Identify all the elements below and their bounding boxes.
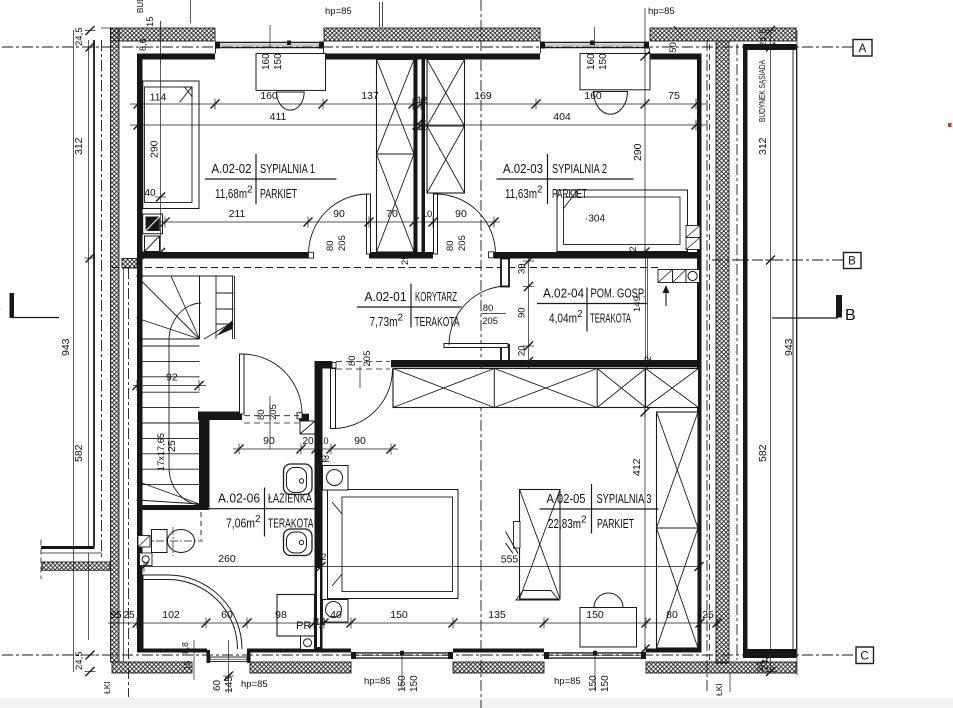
door D3 pom gosp leaf [444,344,508,348]
balcony door jamb stubs [207,650,251,663]
svg-text:hp=85: hp=85 [554,676,581,687]
door D4 size label 80 205 [347,351,373,367]
pom gosp south wall [391,360,702,367]
svg-text:A.02-05: A.02-05 [547,491,586,506]
door D4 sypialnia3 leaf [331,369,336,429]
bottom page edge band [0,698,953,708]
svg-text:TERAKOTA: TERAKOTA [415,314,460,329]
room label lazienka [208,488,316,537]
svg-text:90: 90 [333,208,345,220]
label 25 wardrobe pier [400,254,411,265]
svg-text:150: 150 [586,609,604,621]
svg-text:2: 2 [537,185,543,196]
svg-text:80: 80 [256,409,267,420]
svg-text:90: 90 [354,435,366,447]
svg-text:20: 20 [302,436,314,447]
bottom outer wall hatch segment 4 [646,662,796,673]
svg-text:90: 90 [455,208,467,220]
section B arrow left [0,293,59,318]
svg-text:A.02-01: A.02-01 [365,289,407,304]
desk size labels room1 [261,53,284,70]
svg-text:12: 12 [643,356,654,367]
right wall inner face [697,54,702,650]
bathroom north wall [198,412,242,421]
pom gosp 149 extension lines [646,252,648,368]
svg-text:137: 137 [361,90,379,102]
dimension chain bottom [108,609,722,629]
dashed lintel over bathroom door [244,416,299,423]
svg-text:12: 12 [316,552,327,563]
attic knee-wall dashed line [112,267,658,269]
staircase [137,276,235,505]
svg-text:A.02-06: A.02-06 [218,491,260,506]
door D5 swing arc [242,354,302,414]
svg-text:943: 943 [783,338,795,356]
floor drain square [140,553,153,566]
svg-text:411: 411 [270,111,287,123]
svg-text:PR: PR [296,620,311,632]
lower-left wall axis [124,268,129,697]
svg-text:·304: ·304 [585,213,605,225]
bed sypialnia1 [143,81,199,209]
labels 150 150 below window4 [588,675,611,692]
small square with diagonal near toilet [138,536,150,548]
door D2 size label 80 205 [445,235,468,251]
door D4 swing arc [333,369,393,429]
top outer wall hatch middle segment [324,28,540,41]
svg-text:15: 15 [182,660,192,670]
bottom wall inner face segment 3 [453,649,544,653]
right outer dim 943 [783,30,797,675]
dimension chain bathroom door [233,435,398,455]
svg-text:150: 150 [588,675,599,692]
bottom outer wall hatch segment 1 [112,662,192,673]
extension lines above top wall [380,2,383,27]
svg-text:A.02-04: A.02-04 [543,286,584,301]
right dimension line [757,26,776,676]
tall wardrobe east wall sypialnia3 [657,412,699,648]
wardrobe center side panel [514,522,521,549]
svg-text:24,5: 24,5 [74,28,85,47]
desk sypialnia2 [580,54,650,90]
section marker C [856,647,874,664]
section B arrow right [772,295,856,324]
room label korytarz [357,284,462,330]
bed2 label 304 [585,213,605,225]
wardrobe band top of sypialnia3 [393,369,699,408]
stair south wall [140,505,210,510]
svg-text:114: 114 [150,92,167,104]
wardrobe column between rooms right [427,60,465,194]
PR small square with circle [301,636,315,650]
window centre extension lines bottom [402,650,595,690]
svg-text:150: 150 [600,675,611,692]
svg-text:10: 10 [422,209,433,220]
svg-text:hp=85: hp=85 [364,676,391,687]
dimension line 260 555 [140,553,704,572]
bed sypialnia3 [328,490,459,599]
nightstand lower sypialnia3 [323,600,349,623]
svg-text:24,5: 24,5 [74,652,85,671]
label 24,5 bottom right [755,654,766,673]
balcony door double swing arc [143,575,242,649]
window W3 bottom wall [351,651,453,659]
left dim 943 [60,338,72,356]
svg-text:A.02-03: A.02-03 [503,161,543,176]
top wall inner face middle [324,54,540,60]
stair label 25 [166,440,178,452]
stair label 17x17,65 [156,433,167,471]
label 8,6 top left [138,38,148,51]
svg-text:SYPIALNIA 2: SYPIALNIA 2 [552,161,607,176]
svg-text:260: 260 [218,553,236,565]
room label sypialnia2 [497,154,634,204]
room2 height dim 290 [632,8,650,258]
svg-text:39: 39 [517,263,528,274]
svg-text:90: 90 [517,307,528,318]
svg-text:60: 60 [221,609,233,621]
washbasin lower bathroom [284,529,313,556]
svg-text:75: 75 [668,90,680,102]
svg-text:312: 312 [73,137,85,155]
section line vertical dash-dot [480,0,482,708]
chair sypialnia2 [594,92,628,115]
bed sypialnia2 [557,190,688,252]
svg-text:150: 150 [273,53,284,70]
desk sypialnia1 [256,54,326,91]
door jamb block D5 right [297,413,302,419]
svg-text:12: 12 [628,246,639,257]
svg-text:160: 160 [586,53,597,70]
dimension line 411 404 [130,111,706,133]
arrow up pom gosp [663,285,670,306]
dimension chain pom gosp door [517,256,535,368]
room label sypialnia1 [205,154,337,204]
axis B dash-dot line right [712,259,843,261]
labels 60 145 bottom [212,676,235,693]
svg-text:92: 92 [166,372,178,384]
svg-text:205: 205 [337,235,348,251]
svg-text:2: 2 [581,515,587,526]
svg-text:12: 12 [417,95,428,106]
svg-text:TERAKOTA: TERAKOTA [590,311,631,326]
svg-text:290: 290 [149,140,161,158]
chimney flue black square [143,214,163,234]
window W1 top wall [215,41,324,49]
left wall inner face [137,54,143,650]
labels 15 8,8 bottom left [180,642,192,670]
label 12 at chimney [136,250,146,260]
bottom outer wall hatch segment 2 [250,662,351,673]
hp=85 label top left window [325,6,352,17]
corridor-pomgosp wall lower [501,345,509,362]
svg-text:150: 150 [390,609,408,621]
svg-text:12: 12 [417,122,428,133]
svg-text:11,68m: 11,68m [215,186,247,201]
svg-text:10: 10 [318,436,328,446]
bottom wall inner face segment 1 [137,649,207,653]
svg-text:80: 80 [347,355,358,366]
svg-text:582: 582 [73,444,85,462]
svg-text:SYPIALNIA 1: SYPIALNIA 1 [260,161,315,176]
label LKI bottom left [102,681,112,694]
svg-text:150: 150 [598,53,609,70]
bathroom door centre extension line [269,396,271,449]
pom gosp wall thickness 12 top [628,246,639,257]
left wall vertical axis [101,40,103,560]
window marker 150 top right [595,26,683,58]
svg-text:22,83m: 22,83m [548,516,581,531]
corridor-pomgosp wall upper [501,259,509,287]
svg-text:555: 555 [501,554,519,566]
svg-text:312: 312 [757,137,769,155]
window W4 bottom wall [544,651,646,659]
break mark on side panel [506,532,519,554]
top wall inner face right [650,54,702,60]
svg-text:7,73m: 7,73m [370,314,398,329]
svg-text:150: 150 [397,675,408,692]
chair sypialnia1 [277,92,305,110]
door D3 size label 80 205 [481,303,506,327]
corner block at syp3 door [315,361,333,369]
svg-text:2: 2 [255,514,261,525]
svg-text:2: 2 [247,185,253,196]
right wall insulation dashed line [709,44,711,660]
hp=85 label balcony [241,679,268,690]
label 12 under bathroom dim [319,454,330,465]
corridor north wall segment 1 [137,252,308,259]
right wall vertical axis [706,40,708,694]
left exterior wall stub [41,540,110,580]
red reference dot [948,123,952,127]
stair east wall [199,412,210,505]
svg-text:2: 2 [398,313,404,324]
svg-text:hp=85: hp=85 [325,6,352,17]
top outer wall hatch left segment [111,28,216,41]
svg-text:150: 150 [409,675,420,692]
bottom outer wall hatch segment 3 [453,662,544,673]
neighbour building label [757,60,767,122]
window jamb reveals top [216,25,650,54]
svg-text:404: 404 [553,111,571,123]
toilet [142,527,203,556]
top wall inner face left [137,54,215,60]
pier with diagonal below stub [300,421,315,434]
dashed line below stair wall [200,512,202,540]
svg-text:40: 40 [144,188,156,199]
svg-text:25: 25 [166,440,178,452]
room1 height dim 290 [144,0,190,257]
svg-text:102: 102 [162,609,180,621]
svg-text:ŁKI: ŁKI [102,681,112,694]
svg-text:211: 211 [229,208,246,220]
door D3 swing arc [449,286,508,345]
svg-text:205: 205 [268,404,279,420]
hatched pier at left wall corridor junction [122,259,137,269]
corridor north wall segment 2 [369,252,433,259]
hp=85 label bottom window4 [554,676,581,687]
svg-text:ŁAZIENKA: ŁAZIENKA [268,491,312,506]
partition wall between wardrobes [414,60,425,253]
svg-text:8,8: 8,8 [180,642,190,654]
door jamb block D1 left [309,252,314,258]
svg-text:205: 205 [362,351,373,367]
svg-text:25: 25 [702,609,714,621]
labels 150 150 below window3 [397,675,420,692]
svg-text:25: 25 [400,254,411,265]
chair at bottom window sypialnia3 [580,593,637,647]
svg-text:A.02-02: A.02-02 [212,161,252,176]
svg-text:40: 40 [330,609,342,621]
svg-text:150: 150 [668,42,679,58]
svg-text:BUD: BUD [136,0,145,13]
top band upper edge line [101,27,111,29]
bathroom-syp3 dividing wall [315,361,323,649]
hp=85 label bottom window3 [364,676,391,687]
svg-text:80: 80 [666,609,678,621]
label BUD top left [136,0,145,13]
svg-text:KORYTARZ: KORYTARZ [415,289,457,304]
nightstand squares sypialnia2 [686,226,700,250]
svg-text:4,04m: 4,04m [549,311,577,326]
extension line 15 top left [160,21,162,64]
label PR [296,620,311,632]
svg-text:7,06m: 7,06m [226,516,255,531]
svg-text:B: B [848,256,856,268]
axis A dash-dot line [2,46,853,48]
svg-text:8,6: 8,6 [138,38,148,51]
washbasin upper bathroom [284,464,313,495]
corridor north wall segment 3 pom gosp top [494,252,702,259]
svg-text:160: 160 [260,90,278,102]
svg-text:20: 20 [517,345,528,356]
bottom wall inner face segment 2 [247,649,351,653]
svg-text:25: 25 [123,610,135,621]
svg-text:PARKIET: PARKIET [260,186,297,201]
small box with diagonal below chimney [145,236,160,252]
svg-text:80: 80 [483,303,494,314]
PR shaft rectangle [277,595,315,637]
svg-text:98: 98 [275,609,287,621]
door D1 sypialnia1 leaf [367,194,371,254]
door D1 swing arc [309,194,369,254]
svg-text:hp=85: hp=85 [241,679,268,690]
svg-text:169: 169 [474,90,492,102]
right outer wall hatch band [716,41,729,663]
door D5 size label 80 205 [256,404,279,420]
svg-text:PARKIET: PARKIET [552,186,587,201]
svg-text:24,5: 24,5 [758,29,769,48]
svg-text:TERAKOTA: TERAKOTA [268,516,314,531]
svg-text:15: 15 [145,16,156,27]
pom gosp dim 149 [632,296,643,312]
room3 height dim 412 [631,370,650,655]
svg-text:412: 412 [631,458,643,476]
svg-text:C: C [860,651,868,663]
door jamb block D4 left [332,363,336,369]
svg-text:12: 12 [316,454,327,465]
stair dim 92 [133,372,207,392]
svg-text:PARKIET: PARKIET [597,516,634,531]
axis between buildings right [736,44,738,660]
svg-text:B: B [0,299,1,316]
dashed lintel lines over syp3 doorway [336,362,390,389]
svg-text:160: 160 [584,90,602,102]
neighbour building outline [743,44,797,658]
door D5 bathroom leaf [240,354,245,414]
label LKI bottom right [714,673,730,696]
svg-text:290: 290 [632,143,644,161]
balcony door extension lines [194,640,234,693]
svg-text:hp=85: hp=85 [648,6,675,17]
wardrobe center sypialnia3 [520,490,561,600]
door D1 size label 80 205 [325,235,348,251]
svg-text:24,5: 24,5 [755,654,766,673]
svg-text:80: 80 [445,240,456,251]
dimension chain rooms top [130,90,706,110]
nightstand upper sypialnia3 [323,466,349,491]
wardrobe column between rooms left [377,60,415,253]
section marker A [853,40,872,57]
bottom wall inner face segment 4 [646,649,702,653]
svg-text:B: B [845,307,856,324]
svg-text:80: 80 [325,240,336,251]
axis C dash-dot line [2,654,856,656]
svg-text:A: A [859,43,867,55]
svg-text:60: 60 [212,679,223,691]
svg-text:ŁKI: ŁKI [714,683,724,696]
svg-text:135: 135 [488,609,506,621]
balcony door threshold [210,657,247,662]
svg-text:145: 145 [224,676,235,693]
svg-text:2: 2 [577,309,583,320]
hp=85 label top right window [648,6,675,17]
pom gosp wall thickness 12 bottom [643,356,654,367]
left dimension line [73,26,96,676]
bathroom north wall stub [299,414,309,421]
svg-text:11,63m: 11,63m [505,186,537,201]
svg-text:95: 95 [110,610,122,621]
room label sypialnia3 [540,484,659,534]
door D2 swing arc [436,194,496,254]
svg-text:205: 205 [457,235,468,251]
svg-text:205: 205 [482,316,498,327]
left outer wall hatch band [111,28,120,662]
window W2 top wall [540,41,649,49]
svg-text:582: 582 [757,444,769,462]
svg-text:70: 70 [386,208,398,220]
svg-text:160: 160 [261,53,272,70]
svg-text:BUDYNEK SĄSIADA: BUDYNEK SĄSIADA [757,60,767,122]
syp3 door east jamb [500,344,502,346]
room label pom gosp [537,286,647,332]
desk size labels room2 [586,53,609,70]
door D2 sypialnia2 leaf [434,194,438,254]
door jamb block D2 right [489,252,494,258]
svg-text:SYPIALNIA 3: SYPIALNIA 3 [597,491,652,506]
wardrobe center foot trapezoid [516,591,559,601]
section marker B box [844,253,862,269]
wall labels 12 on syp3 wall [315,454,327,628]
svg-text:90: 90 [263,435,275,447]
svg-text:943: 943 [60,338,72,356]
svg-text:POM. GOSP.: POM. GOSP. [591,286,646,301]
top outer wall hatch right segment [650,28,796,41]
dimension chain corridor wall [158,208,500,228]
label 15 top left [145,16,156,27]
washer row pom gosp [658,270,700,283]
